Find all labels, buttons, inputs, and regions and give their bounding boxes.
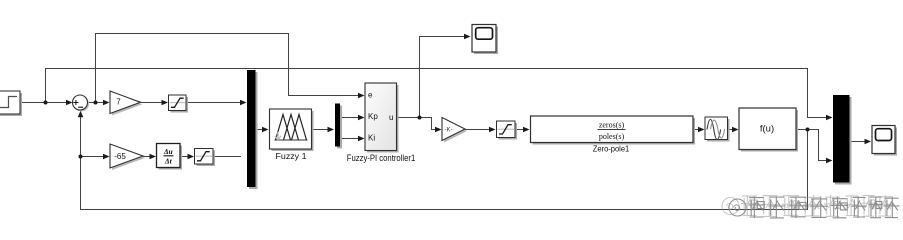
du/dt block (157, 144, 183, 170)
wire gainK->sat3 (465, 129, 490, 131)
arrow into scope2 (865, 139, 872, 145)
wire mux2->scope2 (850, 141, 866, 143)
wire riser A sum out to e input (96, 34, 359, 103)
arrow into scope1 (464, 34, 471, 40)
svg-text:poles(s): poles(s) (599, 132, 625, 141)
arrow into zeropole (523, 127, 530, 133)
saturation sat3 (497, 121, 518, 140)
wire riser B from step junction (46, 69, 827, 118)
svg-text:e: e (368, 90, 373, 99)
wire (20, 34, 865, 210)
arrow into Ki (358, 136, 365, 142)
arrow into gain-65 (103, 154, 110, 160)
arrow into gain7 (103, 100, 110, 106)
arrow into fu (732, 127, 739, 133)
arrow into sat3 (489, 127, 496, 133)
zero-pole1 block (531, 116, 696, 153)
svg-text:u: u (389, 113, 393, 122)
scope2 (872, 126, 897, 156)
gain -K- (442, 118, 467, 143)
svg-text:f(u): f(u) (760, 124, 774, 135)
wire sat3->zeropole (515, 129, 525, 131)
wire u out (397, 118, 437, 130)
saturation sat1 (169, 95, 189, 113)
fcn f(u) block (739, 108, 798, 152)
wire delay->fu (728, 129, 734, 131)
sum S1 (73, 95, 90, 112)
transport delay (705, 117, 730, 142)
arrow into mux1 top (240, 100, 247, 106)
node feedback branch (79, 155, 83, 159)
svg-text:-K-: -K- (445, 127, 453, 133)
node sum out branch (94, 101, 98, 105)
wire u->scope1 (420, 37, 466, 118)
wire zeropole->delay (693, 129, 699, 131)
arrow into Kp (358, 115, 365, 121)
demux (335, 104, 342, 149)
wire branch to gain-65 (81, 156, 104, 158)
node fu out branch (806, 128, 810, 132)
wire demux->Kp (340, 117, 359, 119)
arrow into sum bottom (up) (78, 111, 84, 118)
wire gain-65->dudt (143, 156, 151, 158)
Fuzzy-PI controller1 block (347, 83, 416, 163)
mux1 (247, 70, 258, 189)
node step branch (44, 101, 48, 105)
mux2 (833, 95, 852, 185)
wire step->sum (20, 102, 67, 104)
arrow into mux2 bottom (826, 158, 833, 164)
fuzzy1 block (270, 109, 314, 161)
step source block (0, 91, 22, 116)
wire sat2->mux1 (213, 156, 241, 158)
arrow into delay (698, 127, 705, 133)
svg-text:Fuzzy 1: Fuzzy 1 (276, 151, 307, 161)
wire sum->gain7 (88, 102, 104, 104)
arrow into sat2 (188, 154, 195, 160)
svg-text:Fuzzy-PI controller1: Fuzzy-PI controller1 (347, 153, 416, 163)
svg-text:Zero-pole1: Zero-pole1 (593, 144, 630, 153)
arrow into fuzzy1 (262, 127, 269, 133)
svg-text:zeros(s): zeros(s) (599, 121, 625, 130)
arrow into sum (66, 100, 73, 106)
arrow into demux (328, 127, 335, 133)
wire feedback down and left (81, 116, 808, 210)
arrow into mux2 top (826, 115, 833, 121)
watermark (722, 195, 900, 218)
wire dudt->sat2 (180, 156, 189, 158)
svg-text:-65: -65 (114, 152, 126, 161)
wire demux->Ki (340, 138, 359, 140)
wire fuzzy1->demux (312, 129, 329, 131)
saturation sat2 (195, 149, 216, 167)
arrow into sat1 (162, 100, 169, 106)
svg-text:7: 7 (116, 97, 121, 106)
gain 7 (110, 91, 143, 116)
junction dots (44, 101, 810, 159)
wire fu->mux2 lower (797, 130, 827, 161)
node u branch (418, 116, 422, 120)
arrowheads (66, 34, 871, 164)
scope1 (472, 25, 498, 55)
arrow into e (358, 93, 365, 99)
wire sat1->mux1 (186, 102, 241, 104)
svg-text:Δu: Δu (163, 147, 173, 156)
svg-text:Ki: Ki (368, 133, 375, 142)
wire mux1->fuzzy1 (256, 129, 264, 131)
svg-text:Δt: Δt (164, 157, 173, 166)
wire gain7->sat1 (141, 102, 163, 104)
svg-text:Kp: Kp (368, 112, 378, 121)
arrow into gainK (435, 127, 442, 133)
arrow into dudt (150, 154, 157, 160)
gain -65 (110, 144, 145, 170)
